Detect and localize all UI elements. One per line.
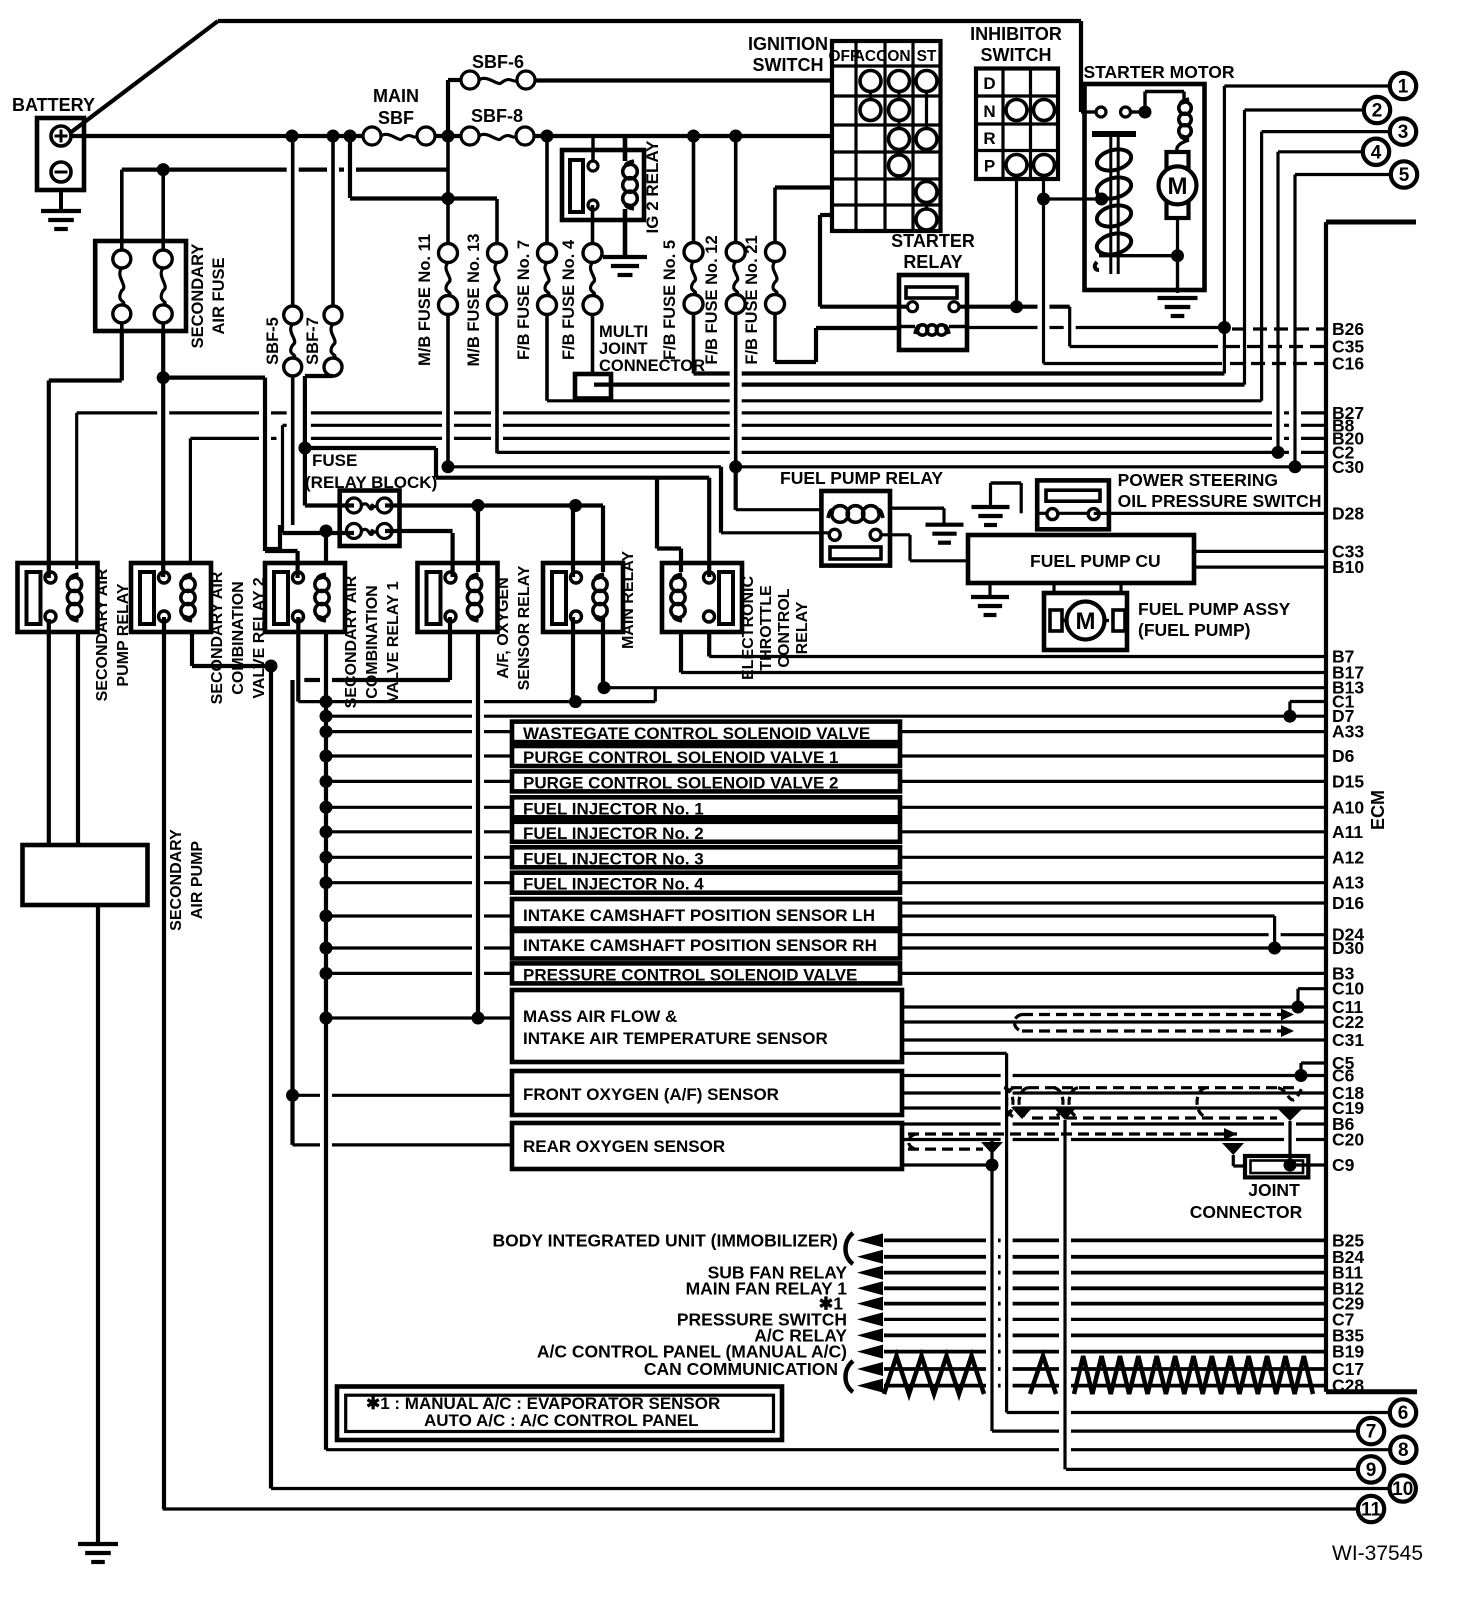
wire c16-row: [1044, 362, 1223, 365]
svg-text:(FUEL PUMP): (FUEL PUMP): [1138, 620, 1250, 640]
wire d28-row: [1094, 512, 1326, 515]
wire no1-col (vertical): [1223, 86, 1226, 374]
svg-text:A10: A10: [1332, 797, 1364, 817]
wire fpr-pin-col (vertical): [908, 535, 911, 561]
wire c5-stub: [1301, 1061, 1326, 1064]
svg-text:SECONDARY AIR: SECONDARY AIR: [209, 571, 226, 704]
wire a33-row: [326, 730, 472, 733]
fuse MAIN SBF: [363, 127, 381, 145]
wire no5-row: [1295, 173, 1391, 176]
wire relay1-pin-col (vertical): [47, 381, 51, 579]
power steering oil pressure switch: [1037, 480, 1109, 529]
svg-text:C28: C28: [1332, 1376, 1364, 1396]
svg-text:M/B FUSE No. 11: M/B FUSE No. 11: [416, 234, 434, 366]
wire d15-row: [326, 780, 472, 783]
svg-text:FUEL PUMP ASSY: FUEL PUMP ASSY: [1138, 599, 1291, 619]
relay main (R5): [543, 563, 623, 632]
fuel injector No.2: [512, 822, 900, 842]
wire b7-row: [709, 655, 1326, 658]
svg-text:SBF-7: SBF-7: [304, 317, 322, 365]
wire c1-stub: [1290, 700, 1326, 703]
wire sbf7-step (vertical): [434, 448, 438, 478]
wire c28-row: [884, 1384, 986, 1388]
svg-text:FUEL PUMP CU: FUEL PUMP CU: [1030, 551, 1161, 571]
svg-text:D28: D28: [1332, 503, 1364, 523]
shield hooks front oxygen: [1007, 1088, 1015, 1117]
svg-text:OIL PRESSURE SWITCH: OIL PRESSURE SWITCH: [1118, 491, 1322, 511]
svg-text:D15: D15: [1332, 771, 1364, 791]
wire c9-row: [1290, 1163, 1326, 1166]
wire maf-in: [326, 1016, 512, 1019]
wire batt-top: [218, 19, 1081, 23]
svg-text:10: 10: [1392, 1479, 1413, 1500]
off-page connector 6: [1390, 1399, 1416, 1425]
svg-text:SBF-6: SBF-6: [472, 52, 524, 72]
front oxygen (A/F) sensor: [512, 1071, 902, 1115]
svg-text:M: M: [1168, 173, 1188, 200]
fuse M/B No.11: [439, 244, 458, 263]
svg-text:PRESSURE CONTROL SOLENOID VALV: PRESSURE CONTROL SOLENOID VALVE: [523, 965, 857, 984]
wire c11-row: [902, 1005, 1326, 1008]
starter relay: [899, 275, 967, 350]
svg-text:CAN COMMUNICATION: CAN COMMUNICATION: [644, 1359, 838, 1379]
CAN twisted pair zigzag: [884, 1356, 984, 1394]
wire minus-row: [122, 168, 287, 172]
off-page connector 7: [1358, 1418, 1384, 1444]
wire saf-right-out (vertical): [161, 331, 165, 378]
svg-text:AIR PUMP: AIR PUMP: [189, 841, 206, 920]
svg-text:BODY INTEGRATED UNIT (IMMOBILI: BODY INTEGRATED UNIT (IMMOBILIZER): [493, 1230, 838, 1250]
svg-text:B10: B10: [1332, 557, 1364, 577]
wire cu-gnd (vertical): [988, 583, 991, 597]
wire roxy-out: [902, 1163, 992, 1166]
rear oxygen sensor: [512, 1123, 902, 1169]
svg-text:ACC: ACC: [854, 48, 888, 65]
wire inh-starter-row: [1044, 197, 1102, 200]
shield hooks rear oxygen: [981, 1142, 1003, 1154]
joint connector: [1245, 1156, 1308, 1177]
wire relay4-pin-bot (vertical): [448, 617, 452, 680]
svg-text:D16: D16: [1332, 893, 1364, 913]
svg-text:CONTROL: CONTROL: [776, 588, 793, 667]
secondary air pump: [23, 845, 148, 905]
wire b8-col (vertical): [281, 425, 284, 533]
wire fb5-row: [694, 371, 730, 375]
wire no3-col (vertical): [1260, 132, 1263, 401]
svg-text:(RELAY BLOCK): (RELAY BLOCK): [305, 473, 437, 492]
fuel injector No.3: [512, 847, 900, 867]
svg-text:C10: C10: [1332, 979, 1364, 999]
fuse M/B No.13: [488, 244, 507, 263]
wire fp-gnd-col (vertical): [942, 508, 945, 525]
wire batt-top-col (vertical): [1079, 21, 1083, 112]
wire b12-row: [884, 1286, 986, 1290]
wire b13-row: [603, 686, 1326, 689]
wire col7 (vertical): [990, 1141, 993, 1431]
off-page connector 11: [1358, 1496, 1384, 1522]
wire no11-row: [163, 1507, 1358, 1510]
wire inh-col2 (vertical): [1042, 179, 1045, 364]
wire ign-row6-col (vertical): [818, 215, 822, 307]
svg-text:IG 2 RELAY: IG 2 RELAY: [643, 140, 662, 234]
bottom destination labels + arrows: [857, 1233, 883, 1247]
svg-text:FUEL INJECTOR No. 2: FUEL INJECTOR No. 2: [523, 824, 704, 843]
off-page connector 2: [1364, 97, 1390, 123]
wire c17-row: [884, 1367, 986, 1371]
wire no2-col (vertical): [1243, 110, 1246, 385]
wire no4-row: [1278, 150, 1363, 153]
svg-text:AIR FUSE: AIR FUSE: [210, 257, 228, 334]
svg-text:D6: D6: [1332, 746, 1355, 766]
svg-text:BATTERY: BATTERY: [12, 95, 95, 115]
svg-text:A12: A12: [1332, 847, 1364, 867]
wire sbf5-jog2: [265, 547, 280, 551]
wire b24-row: [884, 1255, 986, 1259]
wire ps-gnd-col1 (vertical): [1020, 483, 1023, 513]
svg-text:AUTO A/C : A/C CONTROL PANEL: AUTO A/C : A/C CONTROL PANEL: [424, 1411, 699, 1430]
wire c35-row: [1070, 345, 1218, 348]
wire row1-b5pin (vertical): [571, 506, 575, 578]
wire relay3-pin-wire (vertical): [296, 551, 300, 578]
svg-text:WI-37545: WI-37545: [1332, 1542, 1423, 1565]
fuel pump relay coil ground: [891, 507, 944, 510]
wire c30-west: [448, 465, 721, 468]
wire d6-row: [326, 754, 472, 757]
multi joint connector: [575, 374, 611, 399]
wire etc-coil-col (vertical): [655, 478, 659, 549]
wire c16-dash (dashed): [1230, 362, 1326, 365]
wire roxy-shield-bot (dashed): [908, 1147, 983, 1150]
svg-text:A33: A33: [1332, 722, 1364, 742]
svg-text:MULTI: MULTI: [599, 323, 648, 341]
relay A/F oxygen sensor (R4): [418, 563, 498, 632]
wire relay4pin-row: [304, 678, 320, 682]
wire jc-stub: [1233, 1164, 1245, 1167]
svg-text:SENSOR RELAY: SENSOR RELAY: [516, 565, 533, 690]
svg-text:M/B FUSE No. 13: M/B FUSE No. 13: [465, 234, 483, 367]
wire fp-pin-east: [880, 533, 910, 536]
svg-text:C22: C22: [1332, 1012, 1364, 1032]
wire fuse21-coil-row: [816, 326, 899, 330]
wire b17-row: [681, 671, 1326, 674]
wire starter-row: [820, 305, 908, 309]
wire c18-row: [902, 1091, 1001, 1094]
wire roxy-shield-top (dashed): [908, 1132, 1237, 1135]
wire drain-jc (vertical): [1232, 1155, 1235, 1166]
ignition switch: [832, 41, 941, 231]
battery: [37, 118, 84, 190]
wire d30-row: [326, 946, 472, 949]
wire fuserow1-east: [385, 503, 603, 507]
svg-text:JOINT: JOINT: [599, 340, 648, 358]
svg-text:SECONDARY AIR: SECONDARY AIR: [94, 568, 111, 701]
svg-text:MASS AIR FLOW &: MASS AIR FLOW &: [523, 1007, 677, 1026]
wire sbf6-row-e: [535, 78, 832, 82]
svg-text:INTAKE CAMSHAFT POSITION SENSO: INTAKE CAMSHAFT POSITION SENSOR RH: [523, 936, 877, 955]
wire c10-jump (vertical): [1296, 989, 1299, 1007]
svg-text:SECONDARY: SECONDARY: [189, 244, 207, 349]
svg-text:INTAKE CAMSHAFT POSITION SENSO: INTAKE CAMSHAFT POSITION SENSOR LH: [523, 906, 875, 925]
fuel injector No.1: [512, 797, 900, 817]
svg-text:6: 6: [1398, 1403, 1409, 1424]
wire relay2-pin-bot (vertical): [162, 617, 166, 1509]
fuel injector No.4: [512, 873, 900, 893]
wire c20-row: [902, 1138, 1001, 1141]
wire col10 (vertical): [269, 666, 273, 1489]
wire ig2 pin feed: [591, 136, 594, 161]
wire c31-row: [902, 1038, 1326, 1041]
wire inh-col1 (vertical): [1015, 179, 1018, 307]
wire mb11-col2 (vertical): [719, 467, 723, 533]
junction dots: [286, 130, 299, 143]
wire b20-col (vertical): [189, 438, 192, 563]
svg-text:D30: D30: [1332, 938, 1364, 958]
svg-text:SWITCH: SWITCH: [981, 45, 1052, 65]
wire motor-col (vertical): [1176, 218, 1179, 293]
wire c2-row: [497, 451, 730, 454]
wire saf-right-branch: [163, 376, 265, 380]
wire mb-branch: [350, 196, 497, 200]
paren CAN: [846, 1361, 854, 1392]
wire ig2 coil feed: [623, 136, 628, 161]
wastegate control solenoid valve: [512, 722, 900, 743]
wire cu-m2 (vertical): [1119, 583, 1122, 593]
svg-text:THROTTLE: THROTTLE: [758, 585, 775, 671]
wire fuserow2-east: [385, 529, 453, 533]
svg-text:FUEL INJECTOR No. 3: FUEL INJECTOR No. 3: [523, 849, 704, 868]
svg-text:8: 8: [1398, 1440, 1409, 1461]
wire maf-drain-row: [903, 1052, 1007, 1055]
wire lh-step (vertical): [1273, 916, 1276, 948]
svg-text:C30: C30: [1332, 457, 1364, 477]
off-page connector 4: [1363, 139, 1389, 165]
wire relay6-pin-bot (vertical): [707, 631, 711, 657]
purge control solenoid valve 1: [512, 746, 900, 766]
svg-text:SECONDARY AIR: SECONDARY AIR: [343, 575, 360, 708]
intake camshaft position sensor RH: [512, 931, 900, 959]
wire fp-coil-west: [736, 508, 822, 511]
svg-text:CONNECTOR: CONNECTOR: [599, 357, 705, 375]
wire saf-left-branch: [49, 378, 122, 382]
wire a12-row: [326, 856, 472, 859]
fuel pump assy (fuel pump): [1044, 593, 1127, 650]
wire drain-r (vertical): [1288, 1121, 1291, 1165]
relay IG2: [562, 150, 644, 220]
svg-text:STARTER: STARTER: [891, 231, 975, 251]
svg-text:4: 4: [1371, 142, 1382, 163]
wire sbf6-row-w: [448, 78, 461, 82]
wire col9 (vertical): [1063, 1120, 1066, 1469]
wire relay1-coil-bot (vertical): [76, 631, 80, 845]
wire sap-out (vertical): [96, 905, 100, 1542]
wire relay1-pin-bot (vertical): [47, 619, 51, 845]
off-page connector 5: [1391, 161, 1417, 187]
wire relay2-coil-bot (vertical): [190, 631, 194, 666]
wire no8-row: [326, 1448, 1059, 1451]
wire ign-row6-stub: [820, 213, 832, 217]
secondary air pump ground: [78, 1542, 118, 1546]
wire fpr-cu-row: [910, 559, 968, 562]
wire starter-gnd-col (vertical): [1176, 256, 1179, 293]
wire sbf7-jog-row: [305, 374, 333, 378]
wire row1-b5coil (vertical): [601, 506, 605, 573]
wire foxy-shield-bot (dashed): [1032, 1116, 1277, 1119]
svg-text:MAIN RELAY: MAIN RELAY: [620, 551, 637, 649]
wire fuse-east-col (vertical): [263, 378, 267, 551]
svg-text:MAIN: MAIN: [373, 86, 419, 106]
svg-text:FUSE: FUSE: [312, 451, 357, 470]
svg-text:CONNECTOR: CONNECTOR: [1190, 1202, 1303, 1222]
wire no9-row: [1066, 1468, 1357, 1471]
paren immobilizer: [846, 1233, 854, 1264]
svg-text:3: 3: [1398, 122, 1409, 143]
fuel pump relay: [821, 491, 890, 566]
wire relay3pin-row: [265, 549, 298, 553]
wire fuse21-jog (vertical): [814, 328, 818, 362]
relay secondary air combination valve 1 (R3): [265, 563, 345, 632]
wire b11-row: [884, 1271, 986, 1275]
svg-text:P: P: [984, 157, 995, 176]
wire no6-row: [1007, 1411, 1059, 1414]
svg-text:RELAY: RELAY: [794, 601, 811, 654]
svg-text:M: M: [1076, 608, 1096, 635]
wire fuserow2-west: [283, 531, 355, 535]
wire d16-row: [900, 901, 1326, 904]
secondary air fuse box: [95, 241, 186, 331]
svg-text:A/F, OXYGEN: A/F, OXYGEN: [495, 577, 512, 678]
wire fuserow1-west: [305, 503, 354, 507]
wire no1-row: [1224, 84, 1389, 87]
wire fp-pin-west: [721, 531, 830, 534]
svg-text:IGNITION: IGNITION: [748, 34, 828, 54]
wire c35-jog (vertical): [1068, 307, 1071, 347]
svg-text:SECONDARY: SECONDARY: [168, 829, 185, 931]
wire b26-coil-row: [968, 326, 1038, 329]
wire c1-jump (vertical): [1288, 702, 1291, 717]
svg-text:COMBINATION: COMBINATION: [230, 581, 247, 694]
svg-text:FUEL INJECTOR No. 1: FUEL INJECTOR No. 1: [523, 799, 704, 818]
wire maf-shield-top (dashed): [1022, 1013, 1294, 1016]
wire foxy-in: [293, 1094, 321, 1097]
svg-text:SBF-5: SBF-5: [264, 317, 282, 365]
svg-text:ELECTRONIC: ELECTRONIC: [740, 576, 757, 680]
fuel pump CU: [968, 535, 1194, 583]
svg-text:FUEL INJECTOR No. 4: FUEL INJECTOR No. 4: [523, 875, 704, 894]
wire relay3-pin-bot (vertical): [296, 617, 300, 702]
svg-text:C9: C9: [1332, 1155, 1355, 1175]
wire d24-row: [900, 933, 1269, 936]
wire fuse column segments: [120, 170, 124, 250]
wire relay5-coil-bot (vertical): [601, 617, 605, 688]
svg-text:STARTER MOTOR: STARTER MOTOR: [1083, 62, 1234, 82]
wire c22-row: [902, 1020, 1326, 1023]
starter motor: [1085, 84, 1205, 290]
wire saf-left-out (vertical): [120, 331, 124, 381]
note box *1: [337, 1387, 782, 1441]
svg-text:WASTEGATE CONTROL SOLENOID VAL: WASTEGATE CONTROL SOLENOID VALVE: [523, 724, 870, 743]
wire roxy-in: [293, 1143, 321, 1146]
svg-text:INHIBITOR: INHIBITOR: [970, 24, 1062, 44]
ECM box: [1324, 222, 1328, 1392]
svg-text:INTAKE AIR TEMPERATURE SENSOR: INTAKE AIR TEMPERATURE SENSOR: [523, 1029, 828, 1048]
wire no4-col (vertical): [1276, 152, 1279, 453]
off-page connector 3: [1390, 118, 1416, 144]
svg-text:FRONT OXYGEN (A/F) SENSOR: FRONT OXYGEN (A/F) SENSOR: [523, 1085, 779, 1104]
off-page connector 10: [1390, 1475, 1416, 1501]
fuse F/B No.12: [726, 243, 745, 262]
wire c35-dash (dashed): [1226, 345, 1326, 348]
wire battery diagonal: [70, 21, 218, 133]
pressure control solenoid valve: [512, 963, 900, 983]
fuse SBF-6: [461, 71, 479, 89]
purge control solenoid valve 2: [512, 771, 900, 791]
svg-text:PURGE CONTROL SOLENOID VALVE 1: PURGE CONTROL SOLENOID VALVE 1: [523, 748, 838, 767]
svg-text:11: 11: [1361, 1500, 1382, 1521]
wire no3-row: [1262, 130, 1390, 133]
wire cu-m1 (vertical): [1052, 583, 1055, 593]
wire b27-row: [77, 411, 158, 414]
svg-text:A13: A13: [1332, 873, 1364, 893]
wire oxy-supply (vertical): [290, 680, 294, 1145]
wire no7-row: [992, 1429, 1059, 1432]
fuse F/B No.5: [684, 243, 703, 262]
mass air flow & intake air temperature sensor: [512, 990, 902, 1062]
svg-text:SWITCH: SWITCH: [753, 55, 824, 75]
svg-text:REAR OXYGEN SENSOR: REAR OXYGEN SENSOR: [523, 1137, 725, 1156]
svg-text:JOINT: JOINT: [1248, 1180, 1300, 1200]
wire fb4-mjc-row: [594, 383, 730, 387]
wire a10-row: [326, 806, 472, 809]
power steering switch ground hook: [991, 481, 1022, 484]
svg-text:2: 2: [1372, 101, 1383, 122]
svg-text:F/B FUSE No. 5: F/B FUSE No. 5: [661, 240, 679, 360]
svg-text:9: 9: [1366, 1460, 1377, 1481]
wire no10-row: [271, 1487, 1389, 1490]
fuse SBF-7: [324, 306, 342, 324]
wire etc-feed-row: [436, 476, 709, 480]
svg-text:PURGE CONTROL SOLENOID VALVE 2: PURGE CONTROL SOLENOID VALVE 2: [523, 773, 838, 792]
wire camlh-row: [326, 914, 472, 917]
off-page connector 9: [1358, 1456, 1384, 1482]
svg-text:SBF-8: SBF-8: [471, 106, 523, 126]
svg-text:RELAY: RELAY: [903, 252, 962, 272]
fuse F/B No.21: [766, 243, 785, 262]
wire sbf7-col2 (vertical): [303, 376, 307, 506]
off-page connector 1: [1390, 73, 1416, 99]
svg-text:FUEL PUMP RELAY: FUEL PUMP RELAY: [780, 468, 943, 488]
relay secondary air combination valve 2 (R2): [131, 563, 211, 632]
wire c33-row: [1194, 550, 1326, 553]
wire a11-row: [326, 830, 472, 833]
fuel pump CU ground: [971, 595, 1009, 599]
wire col6 (vertical): [1005, 1053, 1008, 1412]
svg-text:SBF: SBF: [378, 108, 414, 128]
wire ig2 coil ground: [623, 209, 628, 257]
wire b8-row: [283, 424, 287, 427]
wire dots-col (vertical): [324, 631, 328, 1450]
wire relay2coil-row: [192, 664, 271, 668]
svg-text:7: 7: [1366, 1422, 1377, 1443]
wire fb21-top-row: [775, 185, 832, 189]
wire a13-row: [326, 881, 472, 884]
wire b10-row: [1194, 565, 1326, 568]
wire etc-coil-row: [657, 546, 681, 550]
wire sbf5-jog (vertical): [278, 525, 282, 549]
wire c29-row: [884, 1302, 986, 1306]
svg-text:N: N: [983, 102, 995, 121]
wire relay6-coil-bot (vertical): [679, 631, 683, 673]
wire relay4-coil-bot (vertical): [476, 631, 480, 1018]
